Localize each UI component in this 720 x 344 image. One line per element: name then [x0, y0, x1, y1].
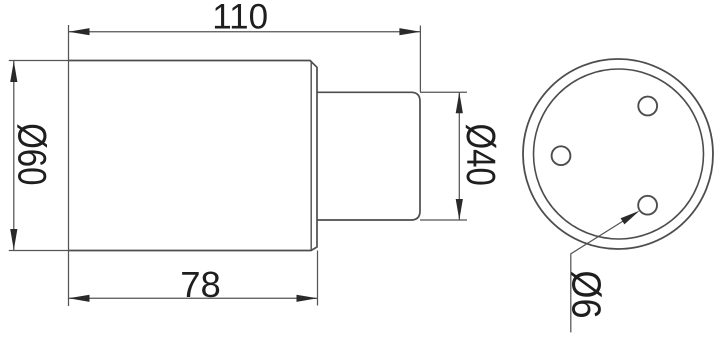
leader arrow Ø6	[621, 211, 640, 225]
arrow 78 left	[69, 295, 90, 302]
svg-text:Ø6: Ø6	[563, 270, 609, 318]
svg-text:78: 78	[180, 264, 221, 305]
arrow Ø40 down	[456, 199, 463, 220]
dim line 78	[69, 297, 318, 299]
bottom extension Ø40	[420, 219, 467, 221]
inner circle	[534, 69, 704, 239]
arrow Ø60 down	[10, 229, 17, 250]
arrow Ø60 up	[10, 61, 17, 82]
hole left	[552, 146, 571, 165]
svg-text:Ø60: Ø60	[10, 123, 54, 185]
leader line Ø6	[571, 212, 637, 332]
dim line Ø40	[458, 92, 460, 220]
bottom extension Ø60	[9, 250, 69, 252]
small cylinder outline	[317, 92, 420, 220]
outer circle	[523, 59, 713, 249]
arrow Ø40 up	[456, 92, 463, 113]
left extension line (left edge)	[68, 25, 70, 306]
arrow 78 right	[297, 295, 318, 302]
hole top right	[638, 97, 657, 116]
svg-text:110: 110	[212, 0, 268, 37]
dim line 110	[69, 31, 421, 33]
svg-text:Ø40: Ø40	[458, 123, 504, 185]
dim line Ø60	[13, 61, 15, 250]
main body outline	[69, 61, 318, 251]
right extension 78	[317, 251, 319, 306]
top extension Ø60	[9, 60, 69, 62]
arrow 110 right	[399, 28, 420, 35]
right extension line 110	[419, 26, 421, 92]
hole bottom right	[638, 196, 657, 215]
top extension Ø40	[420, 91, 467, 93]
face chamfer line	[310, 61, 312, 251]
arrow 110 left	[69, 28, 90, 35]
